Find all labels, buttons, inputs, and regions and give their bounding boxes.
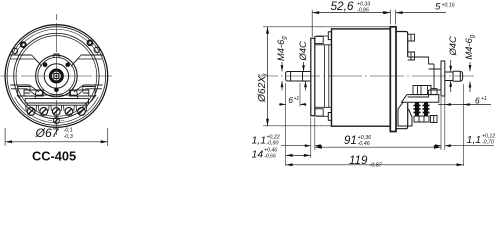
dia62 extension lines <box>263 27 390 126</box>
hub screw bottom <box>54 88 59 93</box>
svg-text:-0,86: -0,86 <box>357 8 369 14</box>
front face rim inner <box>16 36 97 117</box>
extension right plate to 6dim <box>444 96 446 104</box>
dim 5 arrows <box>382 12 390 14</box>
terminal block plate slanted <box>402 95 439 103</box>
terminal cap step <box>431 89 437 95</box>
dim 1,1 left arrows <box>281 145 311 147</box>
housing hole top-left <box>12 48 17 53</box>
svg-text:+1: +1 <box>294 96 300 102</box>
svg-text:-0,1: -0,1 <box>64 128 73 134</box>
svg-text:14: 14 <box>252 149 264 161</box>
stator band bottom chords <box>10 84 102 86</box>
terminal screw stem 1 <box>415 102 419 116</box>
svg-text:Ø62X°3: Ø62X°3 <box>257 73 269 103</box>
svg-text:Ø67: Ø67 <box>35 126 60 140</box>
dim 119 line <box>286 164 464 166</box>
right shaft plain <box>445 72 453 81</box>
rear bracket plate <box>441 61 445 96</box>
shaft square <box>54 74 59 79</box>
svg-text:119: 119 <box>349 155 368 167</box>
dia4C left leader arrows <box>303 62 305 71</box>
svg-text:+0,36: +0,36 <box>358 135 372 141</box>
hub outer flange circle <box>36 55 78 97</box>
terminal nut right <box>431 116 438 123</box>
svg-text:Ø4C: Ø4C <box>447 36 458 57</box>
bearing ring <box>50 70 62 82</box>
svg-text:1,1: 1,1 <box>467 134 482 146</box>
M4-6g left leader arrows <box>281 62 283 71</box>
band diagonal lower-right <box>74 85 86 95</box>
dim 6 right extension lines <box>463 84 465 166</box>
svg-text:M4-6g: M4-6g <box>275 36 288 61</box>
svg-text:52,6: 52,6 <box>331 0 354 13</box>
svg-text:M4-6g: M4-6g <box>463 34 476 59</box>
bell screw tab 2 <box>408 52 415 60</box>
left shaft thread <box>286 72 303 82</box>
motor body <box>332 29 391 126</box>
lower center screw <box>53 118 59 124</box>
band diagonal lower-left <box>27 85 39 95</box>
housing ring 3 bottom arc <box>15 97 99 123</box>
rear bracket arm <box>408 57 434 97</box>
terminal wing left <box>18 87 44 97</box>
motor housing outer circle <box>5 25 108 128</box>
svg-text:91: 91 <box>344 135 357 147</box>
terminal support right <box>71 90 78 95</box>
svg-text:1,1: 1,1 <box>252 135 267 147</box>
terminal support left <box>35 90 42 95</box>
dim 6 left arrows <box>279 103 286 105</box>
dia4C right leader arrows <box>450 60 452 72</box>
shaft center square <box>55 75 57 77</box>
terminal upper bar <box>25 99 88 103</box>
svg-text:+0,16: +0,16 <box>442 3 455 9</box>
hub screw 45deg <box>65 62 70 67</box>
terminal nut mid <box>414 116 429 122</box>
M4-6g right leader arrows <box>469 62 471 71</box>
collar ring dia62 <box>390 27 396 132</box>
housing ring 3 top arc <box>15 29 99 55</box>
rear bell <box>396 32 408 129</box>
svg-text:+1: +1 <box>481 96 487 102</box>
svg-text:-0,87: -0,87 <box>370 163 383 169</box>
right shaft thread <box>453 71 463 81</box>
front view vertical centerline <box>55 14 57 135</box>
front stud top <box>316 35 328 37</box>
front screw head bottom <box>328 113 331 121</box>
rear bearing boss <box>429 69 441 90</box>
dim 6 left extension lines <box>286 83 300 166</box>
terminal base foot <box>398 102 412 126</box>
dim 52,6 line <box>312 12 390 14</box>
bottom extension lines right plate <box>441 97 445 150</box>
svg-text:5: 5 <box>435 2 441 13</box>
svg-text:-0,46: -0,46 <box>358 141 370 147</box>
flange bottom tab <box>315 109 323 116</box>
key notch on hub top <box>54 54 59 58</box>
dia67 text <box>32 126 76 163</box>
dim 6 right arrows <box>445 104 451 106</box>
dia67 dimension line <box>5 141 108 143</box>
terminal screw 1 <box>27 108 35 116</box>
flange top tab <box>315 36 323 43</box>
hub body circle <box>44 64 68 88</box>
terminal brush cap <box>413 86 431 95</box>
front screw head top <box>328 32 331 40</box>
front view horizontal centerline <box>1 75 113 77</box>
svg-text:CC-405: CC-405 <box>32 149 76 164</box>
terminal screw 3 <box>52 108 60 116</box>
terminal screw 4 <box>65 108 73 116</box>
terminal center plate <box>35 95 79 99</box>
terminal tabs <box>26 105 87 111</box>
bottom extension lines flange <box>311 118 315 159</box>
left shaft plain <box>303 72 311 82</box>
dim 52,6 extension lines <box>312 10 395 37</box>
stator band top chords <box>10 54 102 56</box>
side view dimension texts <box>252 0 496 169</box>
dim 1,1 right arrows <box>434 145 442 147</box>
terminal screw 2 <box>40 108 48 116</box>
front boss <box>315 45 331 108</box>
bell screw tab top <box>408 34 415 41</box>
housing hole top-right <box>94 47 99 52</box>
dia67 extension lines <box>5 128 108 146</box>
housing screw top-left filled <box>21 42 26 47</box>
terminal screw 5 <box>78 108 86 116</box>
terminal wing right <box>70 87 96 97</box>
dim 91 line <box>315 146 441 148</box>
front face rim circle <box>14 33 99 118</box>
hub inner ring <box>38 57 75 94</box>
axis centerline <box>258 75 474 77</box>
band diagonal upper-right <box>71 55 81 67</box>
svg-text:-0,66: -0,66 <box>264 154 276 160</box>
housing screw top-right filled <box>88 41 93 46</box>
svg-text:6: 6 <box>475 95 480 105</box>
terminal strip <box>27 103 87 105</box>
svg-text:Ø4C: Ø4C <box>297 41 308 62</box>
dia62 dimension line <box>267 27 269 126</box>
hub screw 135deg <box>43 62 48 67</box>
band diagonal upper-left <box>32 55 42 67</box>
strip end diagonals <box>17 95 96 102</box>
svg-text:-0,90: -0,90 <box>267 141 279 147</box>
terminal screw nut 2 <box>423 106 430 113</box>
housing ring 2 <box>7 27 106 126</box>
front stud bottom <box>316 115 328 117</box>
terminal screw nut 1 <box>414 106 421 113</box>
lower screw centerline ticks <box>49 120 65 122</box>
svg-text:-0,70: -0,70 <box>482 140 494 146</box>
dim 6 right line <box>438 104 491 106</box>
mounting flange plate <box>311 38 315 115</box>
svg-text:-0,3: -0,3 <box>64 134 73 140</box>
terminal screw stem 2 <box>424 102 428 116</box>
dim 14 line <box>286 154 311 156</box>
